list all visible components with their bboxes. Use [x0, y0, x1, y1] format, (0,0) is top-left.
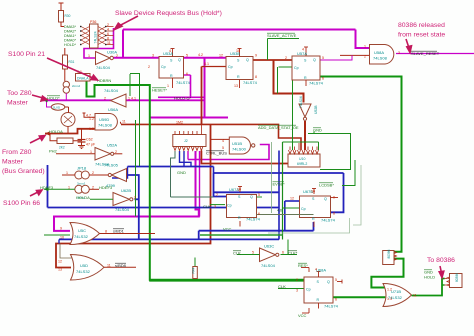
svg-text:R: R: [237, 75, 240, 79]
svg-text:8: 8: [255, 75, 257, 79]
jumper circles small left: [63, 81, 69, 87]
flip-flop U67B: [300, 196, 331, 218]
svg-text:2: 2: [364, 55, 366, 59]
svg-text:CLK: CLK: [233, 251, 241, 256]
svg-text:5: 5: [186, 54, 188, 58]
wire HOLD bus top (magenta): [43, 28, 370, 118]
svg-text:2: 2: [285, 56, 287, 60]
svg-text:Q: Q: [313, 58, 316, 62]
wire OR gate outputs red: [100, 234, 156, 268]
svg-text:HDBRN: HDBRN: [97, 78, 111, 83]
svg-text:R: R: [170, 74, 173, 78]
svg-text:DNHLA: DNHLA: [77, 77, 89, 81]
svg-text:RES*: RES*: [298, 263, 308, 268]
svg-text:5: 5: [335, 278, 337, 282]
capacitor C62: [78, 129, 86, 149]
resistor R mid-bottom: [193, 267, 198, 279]
svg-text:HOLD*: HOLD*: [47, 96, 60, 101]
svg-text:Too Z80: Too Z80: [7, 90, 32, 97]
svg-text:R: R: [317, 298, 320, 302]
svg-text:11: 11: [413, 294, 417, 298]
OR gate U5C: [70, 223, 100, 245]
svg-text:4.2: 4.2: [198, 53, 203, 57]
svg-text:Cp: Cp: [294, 66, 299, 70]
svg-text:74LS74: 74LS74: [309, 81, 324, 86]
svg-text:U56A: U56A: [108, 107, 118, 112]
svg-text:U71B: U71B: [391, 289, 401, 294]
svg-text:CLK: CLK: [203, 204, 211, 209]
flip-flop U57A: [292, 56, 320, 80]
svg-text:80386 released: 80386 released: [398, 22, 445, 29]
svg-text:HOLDA: HOLDA: [76, 195, 90, 200]
svg-text:(Bus Granted): (Bus Granted): [2, 168, 45, 175]
svg-text:74LS24: 74LS24: [94, 31, 98, 43]
svg-text:4.7: 4.7: [86, 114, 91, 118]
svg-text:S100 Pin 66: S100 Pin 66: [3, 200, 40, 207]
svg-text:80386: 80386: [387, 249, 391, 258]
resistor R top-left: [59, 11, 64, 23]
svg-text:J2: J2: [184, 139, 188, 143]
svg-text:10: 10: [311, 190, 315, 194]
svg-text:3: 3: [152, 54, 154, 58]
resistor R50 horizontal: [57, 138, 73, 144]
svg-text:1.2: 1.2: [89, 117, 94, 121]
svg-text:CLK*: CLK*: [288, 251, 298, 256]
svg-text:2: 2: [92, 171, 94, 175]
wire resistor top feeds: [47, 3, 123, 154]
svg-text:69RL2: 69RL2: [297, 162, 307, 166]
wire J-box pins: [394, 252, 450, 287]
svg-text:6: 6: [186, 72, 188, 76]
svg-text:47 pF: 47 pF: [86, 142, 96, 146]
svg-text:9: 9: [255, 54, 257, 58]
svg-text:74LS74: 74LS74: [246, 217, 261, 222]
annotation arrow S100 pin21: [47, 58, 98, 80]
svg-text:74LS74: 74LS74: [321, 218, 336, 223]
NAND gate U51B: [229, 137, 250, 154]
svg-text:Cp: Cp: [301, 207, 306, 211]
svg-text:8: 8: [105, 230, 107, 234]
header block P36: [90, 24, 99, 48]
svg-text:74LS32: 74LS32: [76, 269, 91, 274]
svg-text:2: 2: [107, 23, 109, 27]
svg-text:74LS32: 74LS32: [74, 234, 89, 239]
node HOLDA stub arrowhead: [45, 132, 50, 136]
inverter 74LS05 (points left, bubble left): [112, 169, 127, 182]
svg-text:12: 12: [58, 260, 62, 264]
svg-text:10: 10: [237, 188, 241, 192]
svg-text:10: 10: [60, 236, 64, 240]
connector J bottom: [383, 251, 394, 265]
svg-text:HOLDA: HOLDA: [49, 129, 63, 134]
svg-text:4.6: 4.6: [277, 209, 282, 213]
svg-text:HOLD: HOLD: [424, 275, 435, 280]
svg-text:Q: Q: [327, 280, 330, 284]
svg-text:2K2: 2K2: [59, 146, 65, 150]
svg-text:U52A: U52A: [107, 143, 117, 148]
svg-text:1: 1: [88, 54, 90, 58]
svg-text:LCDSB*: LCDSB*: [319, 183, 334, 188]
svg-text:DMA0*: DMA0*: [64, 39, 77, 43]
svg-text:Q: Q: [250, 195, 253, 199]
svg-text:2mmJ: 2mmJ: [77, 182, 86, 186]
wire transceiver pins bottom (arrows): [174, 124, 203, 151]
svg-text:74LS04: 74LS04: [115, 207, 130, 212]
svg-text:1: 1: [90, 150, 92, 154]
svg-text:DMA3*: DMA3*: [64, 25, 77, 29]
svg-text:74LS05: 74LS05: [104, 163, 119, 168]
svg-text:1: 1: [364, 45, 366, 49]
svg-text:R31: R31: [69, 60, 75, 64]
annotation arrow s100 pin66: [30, 190, 42, 196]
svg-text:9: 9: [333, 196, 335, 200]
svg-text:6: 6: [335, 298, 337, 302]
svg-text:74LS74: 74LS74: [324, 304, 339, 309]
svg-text:4: 4: [169, 49, 171, 53]
svg-text:11: 11: [122, 120, 126, 124]
svg-text:GND: GND: [177, 170, 186, 175]
svg-text:HOLD*: HOLD*: [64, 43, 77, 47]
svg-text:11: 11: [107, 264, 111, 268]
svg-text:6: 6: [282, 251, 284, 255]
svg-text:4: 4: [315, 268, 317, 272]
jumper JP19: [75, 185, 83, 193]
svg-text:Cp: Cp: [161, 65, 166, 69]
svg-text:2: 2: [115, 150, 117, 154]
jumper JP18: [75, 171, 83, 179]
svg-text:4: 4: [222, 139, 224, 143]
svg-text:3: 3: [296, 289, 298, 293]
svg-text:CLK: CLK: [278, 284, 286, 289]
svg-text:3: 3: [214, 205, 216, 209]
svg-text:U52B: U52B: [314, 105, 318, 114]
svg-text:HOLD-G*: HOLD-G*: [174, 96, 192, 101]
oval SLVD: [51, 104, 65, 110]
svg-text:JP18: JP18: [77, 166, 87, 171]
svg-text:Slave Device Requests Bus (Hol: Slave Device Requests Bus (Hold*): [115, 10, 222, 17]
svg-text:s/BD1: s/BD1: [113, 229, 125, 234]
labels tiny green header signals: [64, 25, 77, 47]
OR gate U5D: [71, 255, 105, 281]
svg-text:74LS08: 74LS08: [373, 56, 388, 61]
svg-text:R: R: [304, 76, 307, 80]
wire U63C CLK leads: [243, 254, 260, 256]
svg-text:11: 11: [107, 41, 111, 45]
svg-text:8.1: 8.1: [204, 62, 209, 66]
svg-text:5: 5: [222, 146, 224, 150]
svg-text:5: 5: [252, 251, 254, 255]
inverter U63C: [260, 248, 276, 262]
svg-text:P36: P36: [90, 20, 96, 24]
flip-flop inner marks: [161, 58, 330, 302]
svg-text:Q: Q: [246, 58, 249, 62]
annotation arrow to 80386: [439, 266, 444, 278]
svg-text:C62: C62: [86, 138, 93, 142]
svg-text:VCC: VCC: [223, 227, 232, 232]
svg-text:R30: R30: [65, 14, 71, 18]
svg-text:74LS74: 74LS74: [243, 80, 258, 85]
annotation arrow from z80: [30, 136, 45, 144]
svg-text:1: 1: [66, 171, 68, 175]
svg-text:2: 2: [216, 193, 218, 197]
wire dark red buses: [45, 55, 370, 267]
svg-text:10: 10: [236, 49, 240, 53]
svg-text:74LS74: 74LS74: [176, 80, 191, 85]
svg-text:U58A: U58A: [374, 50, 384, 55]
svg-text:U57A: U57A: [297, 51, 307, 56]
svg-text:5: 5: [322, 56, 324, 60]
wire green right side thick: [320, 77, 445, 298]
svg-text:U59D: U59D: [99, 117, 109, 122]
svg-text:2: 2: [92, 185, 94, 189]
svg-text:74LS04: 74LS04: [96, 65, 111, 70]
inverter U52A: [95, 148, 111, 161]
svg-text:12: 12: [219, 54, 223, 58]
svg-text:3: 3: [398, 51, 400, 55]
wire green long HDBRN net: [87, 81, 305, 281]
flip-flop U53B: [226, 57, 253, 80]
wire U5D input loop thin: [60, 244, 72, 259]
resistor network J1 (bus pack): [173, 135, 206, 147]
svg-text:8: 8: [333, 212, 335, 216]
svg-text:SLAVE_RESET: SLAVE_RESET: [411, 51, 440, 56]
svg-text:2: 2: [104, 97, 106, 101]
svg-text:Q: Q: [324, 197, 327, 201]
flip-flop U67A: [227, 195, 257, 218]
resistor R2 left: [63, 55, 68, 69]
header X-wires right: [98, 27, 114, 45]
svg-text:74LS04: 74LS04: [261, 263, 276, 268]
AND gate U59D: [95, 114, 117, 131]
svg-text:74LS08: 74LS08: [98, 123, 113, 128]
svg-text:Master: Master: [7, 100, 29, 107]
transistor circle: [61, 113, 75, 127]
inverter U62B: [113, 193, 130, 206]
svg-text:1M2: 1M2: [176, 121, 183, 125]
inverter U30A: [96, 52, 111, 65]
svg-text:74LS00: 74LS00: [232, 147, 247, 152]
svg-text:Q: Q: [178, 58, 181, 62]
labels black nets: [113, 51, 440, 268]
wire blue nets: [48, 151, 344, 244]
svg-text:1.5: 1.5: [89, 127, 94, 131]
svg-text:U5D: U5D: [80, 263, 88, 268]
svg-text:74LS04: 74LS04: [299, 96, 303, 108]
svg-text:Cp: Cp: [228, 65, 233, 69]
AND gate U58A: [370, 45, 394, 65]
svg-text:U10: U10: [299, 157, 305, 161]
labels pin numbers red: [58, 20, 417, 302]
svg-text:R: R: [312, 217, 315, 221]
wire U10 pins top (arrows): [289, 143, 319, 154]
svg-text:from reset state: from reset state: [398, 32, 445, 39]
svg-text:Cp: Cp: [306, 288, 311, 292]
resistor network U10: [288, 154, 320, 167]
flip-flop U68A: [304, 277, 333, 303]
svg-text:U63C: U63C: [264, 244, 274, 249]
svg-text:SLAVE_ACTIVE: SLAVE_ACTIVE: [267, 33, 297, 38]
svg-text:S100 Pin 21: S100 Pin 21: [8, 51, 45, 58]
svg-text:s/BD8: s/BD8: [115, 263, 127, 268]
svg-text:2mmJ: 2mmJ: [72, 84, 81, 88]
svg-text:13: 13: [234, 84, 238, 88]
svg-text:1.3: 1.3: [387, 297, 392, 301]
svg-text:CTRL_BUS: CTRL_BUS: [206, 151, 227, 156]
annotation arrow to slave_reset: [406, 39, 412, 53]
wire magenta mid vertical to CTRL bus: [54, 118, 269, 231]
svg-text:DMA1*: DMA1*: [64, 34, 77, 38]
node HDEF3 stub arrowhead: [44, 187, 49, 191]
header X-wires left: [81, 27, 90, 45]
svg-text:80386: 80386: [455, 273, 459, 282]
connector to 80386: [450, 274, 463, 288]
inverter U52B (points down): [299, 104, 311, 117]
box DNHLA: [76, 74, 91, 82]
svg-text:13: 13: [58, 268, 62, 272]
annotation arrow to header: [115, 16, 139, 30]
svg-text:2: 2: [116, 54, 118, 58]
wire FF pin stubs: [171, 47, 343, 313]
svg-text:4.1: 4.1: [131, 97, 136, 101]
wire jumper JP18 leads: [44, 175, 113, 199]
svg-text:1.2: 1.2: [387, 288, 392, 292]
svg-text:4: 4: [107, 28, 109, 32]
svg-text:2: 2: [148, 65, 150, 69]
svg-text:6: 6: [258, 212, 260, 216]
svg-text:HESET*: HESET*: [152, 88, 167, 93]
svg-text:2: 2: [296, 278, 298, 282]
svg-text:From Z80: From Z80: [2, 149, 32, 156]
svg-text:Master: Master: [2, 159, 24, 166]
svg-text:VCC: VCC: [298, 313, 307, 318]
svg-text:R: R: [238, 216, 241, 220]
labels green nets: [40, 33, 435, 318]
svg-text:12: 12: [290, 197, 294, 201]
svg-text:To 80386: To 80386: [427, 257, 455, 264]
svg-text:SLVD: SLVD: [53, 106, 61, 110]
svg-text:HDEF3: HDEF3: [99, 185, 113, 190]
svg-text:6: 6: [107, 32, 109, 36]
svg-text:5: 5: [258, 193, 260, 197]
svg-text:1: 1: [128, 97, 130, 101]
svg-text:2: 2: [134, 195, 136, 199]
wire green thin nets: [44, 39, 361, 289]
svg-text:GND: GND: [313, 128, 322, 133]
svg-text:1: 1: [68, 185, 70, 189]
svg-text:U5C: U5C: [78, 228, 86, 233]
svg-text:6: 6: [322, 77, 324, 81]
svg-text:74LS04: 74LS04: [104, 88, 119, 93]
labels teal component designators: [53, 14, 460, 309]
svg-text:EVSB*: EVSB*: [273, 182, 286, 187]
svg-text:9: 9: [60, 227, 62, 231]
svg-text:8: 8: [107, 37, 109, 41]
label overlines: [47, 33, 437, 270]
svg-text:U51B: U51B: [232, 141, 242, 146]
svg-text:PH2: PH2: [49, 149, 58, 154]
svg-text:1: 1: [167, 84, 169, 88]
svg-text:DMA2*: DMA2*: [64, 30, 77, 34]
flip-flop U53A: [159, 57, 184, 79]
node HOLD* stub arrowhead: [43, 98, 48, 102]
OR gate U71B: [383, 284, 412, 307]
svg-text:4: 4: [302, 48, 304, 52]
svg-text:R44: R44: [192, 267, 196, 273]
svg-text:U68A: U68A: [316, 268, 326, 273]
svg-text:Cp: Cp: [227, 204, 232, 208]
svg-text:ADD_DATA_STAT_OE: ADD_DATA_STAT_OE: [258, 125, 299, 130]
annotation arrow too z80: [32, 95, 47, 101]
svg-text:U62B: U62B: [121, 188, 131, 193]
inverter U56A (points left): [111, 94, 127, 107]
header row dots: [80, 26, 106, 45]
